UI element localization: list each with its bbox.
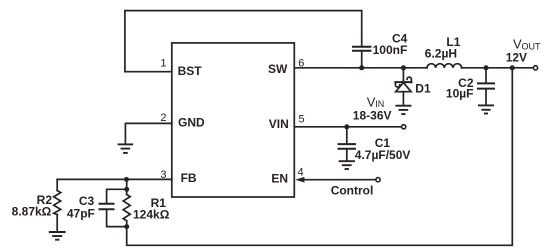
svg-text:8.87kΩ: 8.87kΩ <box>12 205 52 219</box>
svg-text:12V: 12V <box>506 50 527 64</box>
svg-text:VIN: VIN <box>269 117 289 131</box>
svg-text:Control: Control <box>331 184 374 198</box>
svg-text:100nF: 100nF <box>373 43 408 57</box>
svg-text:5: 5 <box>299 113 305 125</box>
svg-text:6: 6 <box>298 58 304 70</box>
svg-text:SW: SW <box>268 62 288 76</box>
svg-text:124kΩ: 124kΩ <box>133 207 170 221</box>
svg-text:IN: IN <box>375 99 384 109</box>
svg-text:GND: GND <box>178 116 205 130</box>
svg-text:18-36V: 18-36V <box>353 108 392 122</box>
svg-text:47pF: 47pF <box>67 206 95 220</box>
svg-text:1: 1 <box>160 58 166 70</box>
svg-text:6.2µH: 6.2µH <box>425 47 457 61</box>
svg-text:D1: D1 <box>415 82 431 96</box>
svg-text:FB: FB <box>181 171 197 185</box>
svg-text:4: 4 <box>298 167 304 179</box>
svg-text:10µF: 10µF <box>446 87 474 101</box>
svg-text:3: 3 <box>160 169 166 181</box>
svg-text:4.7µF/50V: 4.7µF/50V <box>355 148 411 162</box>
svg-text:OUT: OUT <box>522 41 542 51</box>
svg-text:BST: BST <box>178 64 203 78</box>
svg-text:EN: EN <box>271 172 288 186</box>
svg-text:2: 2 <box>160 112 166 124</box>
